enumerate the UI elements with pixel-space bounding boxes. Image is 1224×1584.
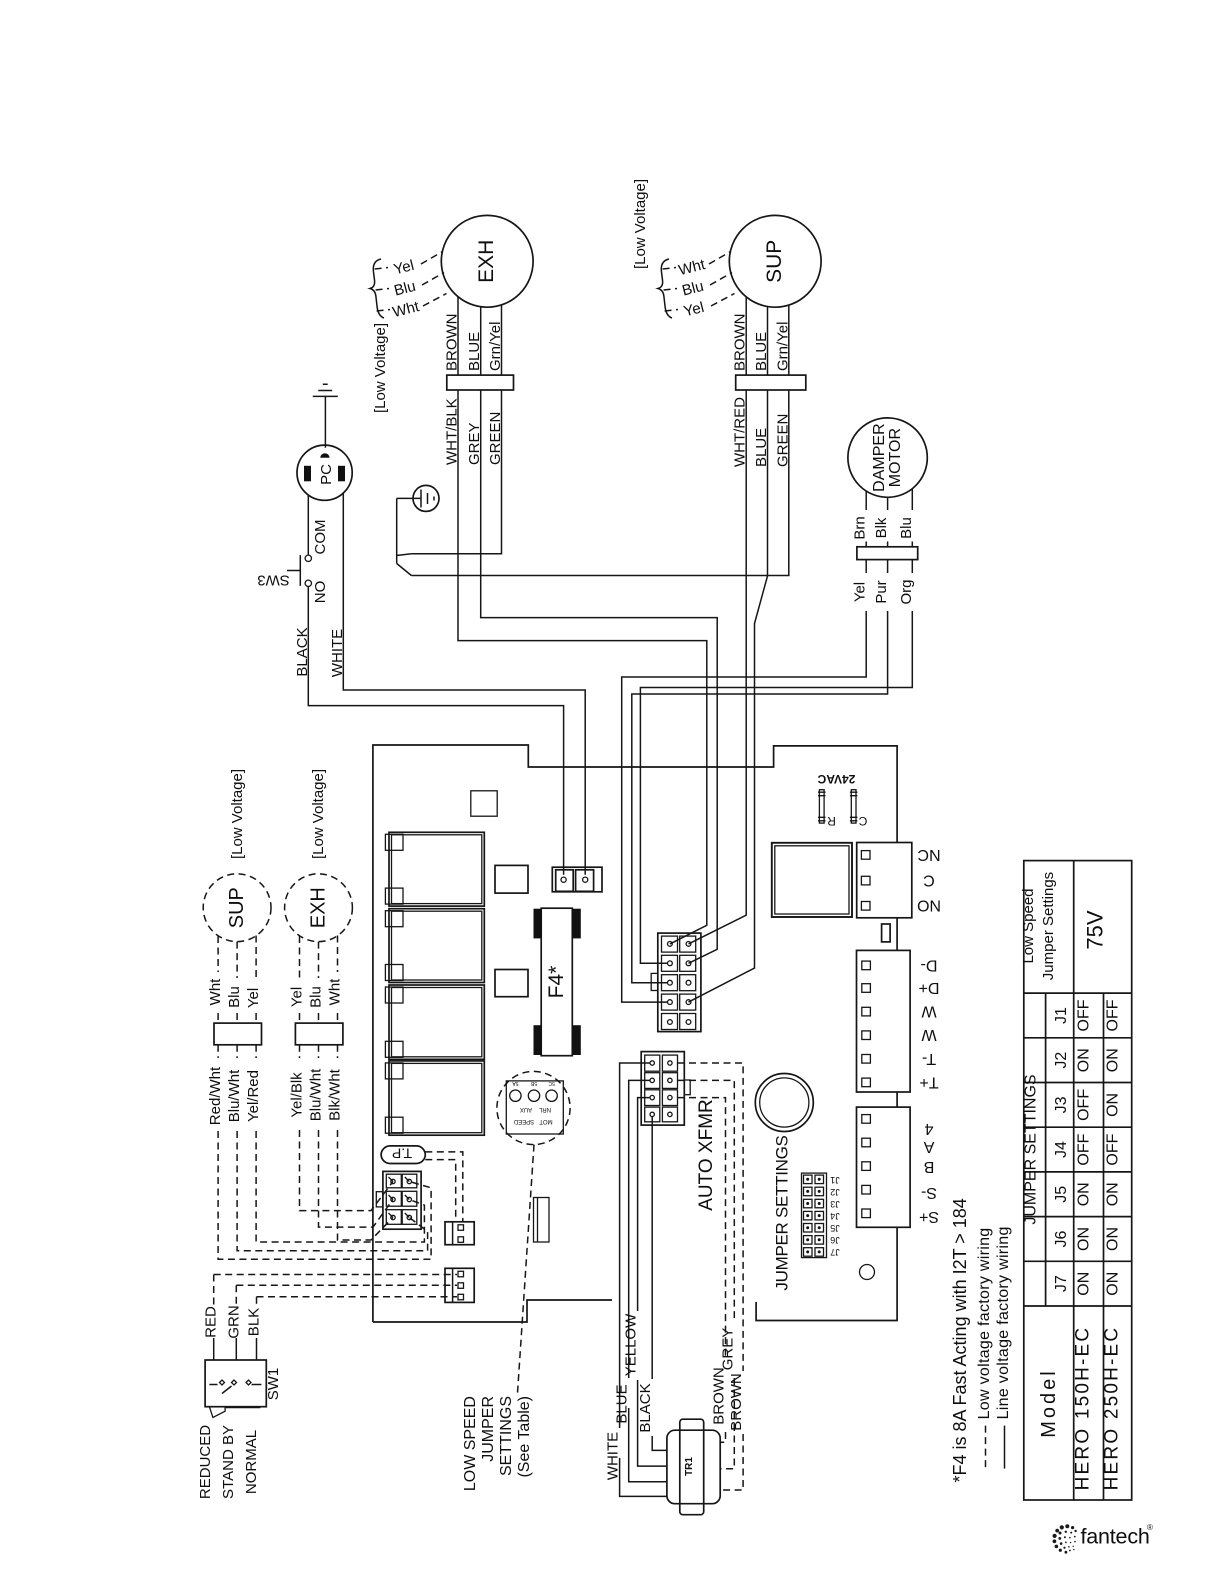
- svg-text:BROWN: BROWN: [444, 314, 461, 372]
- svg-text:D+: D+: [919, 979, 940, 996]
- svg-text:BLUE: BLUE: [753, 332, 770, 371]
- wire dashed BROWN (lower) to TR1: [678, 1063, 746, 1490]
- board main PCB outline: [373, 745, 897, 1322]
- svg-text:J5: J5: [1053, 1186, 1070, 1203]
- wire EXH BROWN (circle to connector bar): [444, 297, 461, 375]
- table row labels J1-J7: [1053, 1007, 1070, 1292]
- wire dashed SUP Yel: [245, 936, 262, 1024]
- svg-text:B: B: [924, 1158, 935, 1175]
- svg-text:Blk: Blk: [873, 517, 890, 538]
- svg-text:WHT/BLK: WHT/BLK: [444, 398, 461, 465]
- svg-text:T+: T+: [919, 1073, 938, 1090]
- svg-text:GREEN: GREEN: [487, 412, 504, 465]
- component R5 (small board part): [882, 924, 891, 942]
- svg-text:5B: 5B: [530, 1080, 537, 1086]
- test point T.P: [381, 1146, 425, 1164]
- note LOW SPEED JUMPER SETTINGS: [462, 1396, 533, 1491]
- switch SW3: [257, 555, 311, 588]
- logo fantech: [1053, 1523, 1154, 1554]
- wire GRN (SW1): [225, 1285, 457, 1360]
- fuse F4: [534, 908, 581, 1055]
- svg-text:J6: J6: [1053, 1230, 1070, 1247]
- wire SUP BLUE run to board connector: [689, 390, 771, 1002]
- wire BLUE to TR1: [614, 1080, 667, 1481]
- svg-text:J2: J2: [830, 1187, 840, 1197]
- svg-text:Yel/Blk: Yel/Blk: [289, 1072, 306, 1118]
- svg-text:S-: S-: [921, 1184, 937, 1201]
- svg-text:ON: ON: [1105, 1272, 1122, 1296]
- jumper detail circle LOW SPEED (dashed): [497, 1071, 570, 1144]
- svg-text:HERO 250H-EC: HERO 250H-EC: [1102, 1326, 1123, 1491]
- svg-text:MOT: MOT: [539, 1118, 553, 1124]
- connector transformer 8-pin (2x4): [641, 1052, 690, 1126]
- svg-text:5C: 5C: [548, 1080, 555, 1086]
- svg-text:SUP: SUP: [226, 887, 248, 928]
- svg-text:MOTOR: MOTOR: [887, 428, 904, 487]
- svg-text:AUTO XFMR: AUTO XFMR: [696, 1099, 717, 1211]
- svg-text:BLUE: BLUE: [753, 428, 770, 467]
- component C2 (board rect): [495, 970, 528, 997]
- svg-text:REDUCED: REDUCED: [197, 1425, 214, 1499]
- svg-text:[Low Voltage]: [Low Voltage]: [229, 769, 246, 859]
- svg-text:J7: J7: [830, 1247, 840, 1257]
- svg-text:Low Speed: Low Speed: [1020, 888, 1037, 963]
- wire BLK (SW1): [246, 1297, 458, 1360]
- svg-text:C: C: [923, 872, 935, 889]
- svg-text:Wht: Wht: [207, 978, 224, 1006]
- ground chassis (above power cord): [313, 384, 338, 448]
- svg-text:[Low Voltage]: [Low Voltage]: [372, 323, 389, 413]
- svg-text:W: W: [921, 1003, 937, 1020]
- svg-text:Yel/Red: Yel/Red: [245, 1070, 262, 1122]
- svg-text:Brn: Brn: [852, 516, 869, 539]
- svg-text:OFF: OFF: [1105, 1133, 1122, 1165]
- svg-text:Blu: Blu: [308, 986, 325, 1008]
- svg-text:J2: J2: [1053, 1052, 1070, 1069]
- wire EXH GREEN (earth): [411, 390, 504, 554]
- mounting hole: [860, 1265, 875, 1280]
- svg-text:[Low Voltage]: [Low Voltage]: [310, 769, 327, 859]
- wire SUP Grn/Yel: [774, 305, 791, 375]
- svg-text:S+: S+: [919, 1208, 939, 1225]
- wire damper Org run to board connector: [640, 560, 914, 964]
- svg-text:BROWN: BROWN: [728, 1373, 745, 1431]
- motor DAMPER MOTOR: [848, 418, 927, 497]
- table row HERO 150H-EC: [1073, 999, 1094, 1490]
- fan EXH dashed circle (low voltage side): [285, 874, 353, 942]
- svg-text:A: A: [923, 1138, 934, 1155]
- legend line voltage factory wiring: [995, 1226, 1012, 1468]
- transformer toroid: [755, 1074, 813, 1132]
- svg-text:T-: T-: [922, 1050, 936, 1067]
- relay K1: [385, 832, 484, 906]
- svg-text:WHT/RED: WHT/RED: [732, 397, 749, 467]
- svg-text:GRN: GRN: [225, 1305, 242, 1338]
- svg-text:J1: J1: [830, 1175, 840, 1185]
- svg-text:Yel: Yel: [245, 988, 262, 1008]
- connector bar damper motor: [857, 547, 918, 560]
- svg-text:SW3: SW3: [257, 572, 290, 589]
- svg-text:BROWN: BROWN: [732, 314, 749, 372]
- svg-text:Red/Wht: Red/Wht: [207, 1066, 224, 1125]
- component C1 (board rect): [495, 865, 528, 893]
- svg-text:C: C: [858, 814, 867, 828]
- terminal block 4/A/B/S-/S+: [857, 1107, 940, 1227]
- svg-text:SUP: SUP: [763, 240, 786, 283]
- svg-text:ON: ON: [1076, 1182, 1093, 1206]
- wire SUP GREEN (earth bus): [411, 390, 791, 576]
- wire YELLOW to TR1: [623, 1098, 667, 1467]
- wire dashed SUP Yel/Red to board: [245, 1045, 424, 1242]
- leader Yel (EXH low-voltage lead): [375, 252, 443, 279]
- svg-text:J3: J3: [830, 1199, 840, 1209]
- svg-text:AUX: AUX: [520, 1106, 532, 1112]
- svg-text:Blk/Wht: Blk/Wht: [327, 1068, 344, 1121]
- svg-text:J6: J6: [830, 1235, 840, 1245]
- ground earth symbol (circled): [413, 485, 439, 511]
- svg-text:JUMPER: JUMPER: [480, 1396, 497, 1462]
- wire dashed EXH Blu/Wht to board: [308, 1045, 393, 1227]
- table row HERO 250H-EC: [1102, 999, 1123, 1490]
- svg-text:Blu/Wht: Blu/Wht: [308, 1068, 325, 1121]
- leader Wht (SUP low-voltage lead): [663, 252, 731, 280]
- svg-text:Grn/Yel: Grn/Yel: [487, 322, 504, 371]
- svg-text:HERO 150H-EC: HERO 150H-EC: [1073, 1326, 1094, 1491]
- svg-text:NC: NC: [917, 846, 940, 863]
- svg-text:OFF: OFF: [1076, 1089, 1093, 1121]
- svg-text:STAND BY: STAND BY: [220, 1425, 237, 1499]
- svg-text:75V: 75V: [1083, 910, 1108, 949]
- connector bar SUP dashed: [214, 1023, 262, 1045]
- brace SUP leads: [658, 259, 672, 318]
- svg-text:GREY: GREY: [466, 422, 483, 465]
- fan SUP dashed circle (low voltage side): [203, 874, 271, 942]
- component pad (small square on board): [471, 791, 497, 816]
- switch SW1: [205, 1360, 282, 1418]
- connector bar SUP: [736, 375, 806, 390]
- wire dashed EXH Yel: [289, 936, 306, 1023]
- wire damper Blu lead: [898, 489, 915, 547]
- table jumper settings grid: [1024, 861, 1132, 1500]
- connector bar EXH dashed: [295, 1023, 343, 1045]
- wire BLACK (SW3 NO to line connector): [294, 587, 564, 875]
- terminal block NC/C/NO: [857, 843, 941, 918]
- wire dashed SUP Wht: [207, 936, 224, 1023]
- wire dashed BROWN (upper) to TR1: [678, 1098, 728, 1443]
- svg-text:LOW SPEED: LOW SPEED: [462, 1396, 479, 1491]
- wire SUP WHT/RED run to board connector: [689, 390, 749, 944]
- svg-text:NRL: NRL: [538, 1106, 551, 1112]
- svg-text:NO: NO: [312, 581, 329, 604]
- svg-text:COM: COM: [312, 520, 329, 555]
- motor SUP (supply fan): [729, 215, 821, 307]
- svg-text:BLUE: BLUE: [466, 332, 483, 371]
- svg-text:Blu: Blu: [226, 986, 243, 1008]
- svg-text:EXH: EXH: [475, 240, 498, 283]
- svg-text:WHITE: WHITE: [329, 629, 346, 677]
- svg-text:OFF: OFF: [1105, 999, 1122, 1031]
- connector bar EXH: [447, 375, 514, 390]
- wire dashed EXH Blu: [308, 942, 325, 1024]
- svg-text:24VAC: 24VAC: [817, 772, 855, 786]
- svg-text:ON: ON: [1105, 1093, 1122, 1117]
- svg-text:F4*: F4*: [545, 966, 568, 999]
- wire damper Brn lead: [852, 492, 869, 547]
- svg-text:BLACK: BLACK: [637, 1383, 654, 1432]
- svg-text:YELLOW: YELLOW: [623, 1313, 640, 1376]
- svg-text:GREY: GREY: [719, 1328, 736, 1371]
- wire dashed T.P pair to aux connector: [425, 1152, 463, 1222]
- svg-text:Org: Org: [898, 579, 915, 604]
- wire EXH Grn/Yel: [487, 305, 504, 375]
- wire dashed EXH Blk/Wht to board: [327, 1045, 393, 1240]
- svg-text:J5: J5: [830, 1223, 840, 1233]
- connector line input (2-pin): [552, 867, 602, 892]
- wire EXH WHT/BLK run to board: [444, 390, 707, 944]
- connector motor 6-pin (2x3): [376, 1171, 421, 1229]
- table header Low Speed Jumper Settings: [1020, 872, 1057, 980]
- svg-text:®: ®: [1147, 1523, 1153, 1532]
- wire dashed SUP Blu/Wht to board: [226, 1045, 428, 1251]
- svg-text:RED: RED: [203, 1306, 220, 1338]
- svg-text:ON: ON: [1076, 1048, 1093, 1072]
- svg-text:Jumper Settings: Jumper Settings: [1040, 872, 1057, 980]
- svg-text:ON: ON: [1105, 1048, 1122, 1072]
- svg-text:J7: J7: [1053, 1275, 1070, 1292]
- svg-text:4: 4: [924, 1120, 933, 1137]
- wire dashed SUP Red/Wht to board: [207, 1045, 431, 1259]
- svg-text:SW1: SW1: [265, 1368, 282, 1401]
- svg-text:(See Table): (See Table): [516, 1396, 533, 1478]
- connector control 3-pin (SW1 input): [445, 1268, 474, 1302]
- svg-text:Pur: Pur: [873, 580, 890, 603]
- svg-text:OFF: OFF: [1076, 1133, 1093, 1165]
- wire EXH BLUE: [466, 307, 483, 376]
- wire EXH GREY run to board: [466, 390, 717, 963]
- svg-text:J4: J4: [1053, 1141, 1070, 1158]
- terminal C (24VAC): [850, 790, 867, 828]
- svg-text:5A: 5A: [512, 1080, 519, 1086]
- svg-text:Grn/Yel: Grn/Yel: [774, 322, 791, 371]
- svg-text:GREEN: GREEN: [774, 414, 791, 467]
- leader Blu (SUP low-voltage lead): [664, 273, 732, 300]
- svg-text:OFF: OFF: [1076, 999, 1093, 1031]
- wire dashed EXH Yel/Blk to board: [289, 1045, 393, 1211]
- connector board 10-pin (2x5): [651, 933, 701, 1032]
- svg-text:Blu/Wht: Blu/Wht: [226, 1069, 243, 1122]
- leader dashed to LOW SPEED note: [518, 1145, 535, 1393]
- wire damper Blk lead: [873, 497, 890, 547]
- svg-text:*F4 is 8A Fast Acting with I2T: *F4 is 8A Fast Acting with I2T > 184: [950, 1198, 970, 1482]
- wire SUP BLUE: [753, 307, 770, 376]
- svg-text:SPEED: SPEED: [513, 1118, 534, 1124]
- svg-text:J4: J4: [830, 1211, 840, 1221]
- svg-text:W: W: [921, 1026, 937, 1043]
- svg-text:Line voltage factory wiring: Line voltage factory wiring: [995, 1226, 1012, 1419]
- wire SUP BROWN (circle to connector bar): [732, 297, 749, 375]
- wire dashed EXH Wht: [327, 936, 344, 1024]
- svg-text:ON: ON: [1105, 1227, 1122, 1251]
- motor EXH (exhaust fan): [441, 215, 533, 307]
- jumper header J1-J7: [802, 1173, 840, 1258]
- svg-text:BROWN: BROWN: [711, 1367, 728, 1425]
- relay K2: [385, 909, 484, 983]
- svg-text:J3: J3: [1053, 1096, 1070, 1113]
- wire WHITE (PC to line connector): [329, 493, 585, 875]
- svg-text:EXH: EXH: [308, 887, 330, 928]
- svg-text:J1: J1: [1053, 1007, 1070, 1024]
- component D1 (board edge part): [534, 1198, 550, 1243]
- leader Yel (SUP low-voltage lead): [665, 294, 735, 321]
- wire dashed GREY to TR1: [678, 1080, 737, 1468]
- svg-text:BLK: BLK: [246, 1308, 263, 1336]
- leader Wht (EXH low-voltage lead): [377, 294, 447, 322]
- wire WHITE to TR1: [605, 1063, 667, 1496]
- svg-text:R: R: [827, 814, 836, 828]
- svg-text:D-: D-: [921, 956, 938, 973]
- svg-text:JUMPER SETTINGS: JUMPER SETTINGS: [773, 1135, 792, 1290]
- svg-text:NORMAL: NORMAL: [243, 1430, 260, 1494]
- relay K4: [385, 1061, 484, 1135]
- svg-text:BLACK: BLACK: [294, 627, 311, 676]
- wire earth bus (ground node chevron): [397, 498, 413, 575]
- wire BLACK to TR1: [637, 1117, 667, 1451]
- svg-text:ON: ON: [1076, 1227, 1093, 1251]
- brace EXH leads: [370, 259, 384, 318]
- wire RED (SW1): [203, 1275, 457, 1361]
- svg-text:ON: ON: [1076, 1272, 1093, 1296]
- terminal R (24VAC): [818, 790, 836, 828]
- power cord PC: [297, 445, 352, 500]
- svg-text:Wht: Wht: [327, 978, 344, 1006]
- svg-text:T.P: T.P: [392, 1146, 412, 1162]
- svg-text:[Low Voltage]: [Low Voltage]: [632, 179, 649, 269]
- connector aux 2-pin: [445, 1222, 474, 1245]
- wire damper Pur run to board connector: [632, 560, 890, 983]
- svg-text:SETTINGS: SETTINGS: [498, 1396, 515, 1476]
- svg-text:Model: Model: [1038, 1368, 1060, 1437]
- svg-text:JUMPER SETTINGS: JUMPER SETTINGS: [1023, 1074, 1040, 1224]
- svg-text:Blu: Blu: [898, 517, 915, 539]
- svg-text:Low voltage factory wiring: Low voltage factory wiring: [976, 1228, 993, 1420]
- relay K5 (damper relay square): [772, 843, 852, 917]
- svg-text:Yel: Yel: [289, 987, 306, 1007]
- svg-text:Yel: Yel: [852, 582, 869, 602]
- leader Blu (EXH low-voltage lead): [376, 273, 444, 300]
- legend low voltage factory wiring: [976, 1228, 993, 1469]
- wire damper Yel run to board connector: [622, 560, 869, 1003]
- svg-text:ON: ON: [1105, 1182, 1122, 1206]
- svg-text:NO: NO: [917, 897, 941, 914]
- svg-text:TR1: TR1: [684, 1457, 695, 1476]
- relay K3: [385, 985, 484, 1059]
- wire BLACK (PC to SW3 COM): [307, 495, 309, 555]
- wire dashed SUP Blu: [226, 942, 243, 1024]
- terminal block D-/D+/W/W/T-/T+: [857, 950, 940, 1092]
- transformer TR1: [667, 1419, 720, 1515]
- svg-text:PC: PC: [318, 464, 335, 485]
- svg-text:DAMPER: DAMPER: [871, 423, 888, 491]
- svg-text:fantech: fantech: [1081, 1525, 1150, 1549]
